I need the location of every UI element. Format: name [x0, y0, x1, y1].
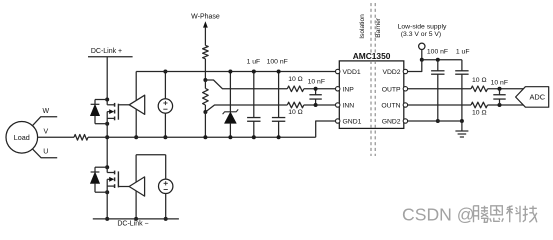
svg-text:10 Ω: 10 Ω: [472, 77, 487, 84]
wire R6 to ADC: [488, 104, 524, 106]
resistor R5 10ohm (OUTP): [471, 86, 488, 92]
wire R5 to ADC: [488, 88, 524, 90]
svg-text:1 uF: 1 uF: [247, 58, 261, 65]
svg-text:10 Ω: 10 Ω: [288, 76, 303, 83]
wire driver A1 supply top: [135, 72, 137, 101]
wire VDD1 rail: [136, 71, 339, 73]
wire tap B to INN line: [205, 105, 287, 112]
wire R1 to node A: [204, 59, 206, 80]
svg-text:Load: Load: [14, 133, 30, 142]
wire Q1 gate: [118, 104, 129, 106]
pin VDD1: [336, 69, 340, 73]
source V1 (floating gate-drive supply): [158, 99, 172, 113]
node low-side supply terminal: [419, 43, 425, 49]
svg-text:GND1: GND1: [343, 119, 362, 126]
wire GND2 to ground: [461, 121, 463, 131]
wire W-Phase arrow: [203, 21, 208, 27]
svg-text:W-Phase: W-Phase: [191, 14, 220, 21]
wire driver A2 return bottom: [135, 191, 137, 219]
svg-text:ADC: ADC: [529, 93, 545, 102]
wire phase rail (high-side ground): [107, 136, 316, 138]
pin VDD2: [403, 69, 407, 73]
wire GND2: [407, 120, 462, 122]
wire supply terminal to rail: [421, 50, 423, 60]
pin INN: [336, 103, 340, 107]
svg-text:1 uF: 1 uF: [456, 49, 470, 56]
op-amp U1 AMC1350 (isolated amplifier): [339, 61, 404, 128]
svg-text:10 Ω: 10 Ω: [472, 109, 487, 116]
diode D1 (zener clamp): [229, 72, 231, 112]
wire low-side supply rail: [422, 59, 462, 61]
wire Q1-Q2 midpoint (phase node): [106, 124, 108, 168]
wire DC-Link+ rail: [88, 56, 133, 58]
svg-text:100 nF: 100 nF: [427, 49, 448, 56]
wire Q2 source to DC-Link- rail: [106, 191, 108, 219]
svg-text:AMC1350: AMC1350: [353, 51, 391, 61]
pin OUTN: [403, 103, 407, 107]
label watermark glyph en: [491, 206, 503, 215]
source V2 (low-side gate-drive supply): [159, 179, 173, 193]
label watermark glyph ji: [523, 206, 528, 222]
capacitor C6 10nF (output filter): [499, 89, 501, 95]
wire Q2 gate: [118, 186, 129, 188]
capacitor C1 1uF (VDD1): [253, 72, 255, 118]
wire load V to shunt: [38, 136, 74, 138]
wire VDD2 to supply: [407, 60, 421, 72]
ground: [455, 130, 468, 132]
capacitor C3 10nF (input filter): [315, 89, 317, 95]
capacitor C5 1uF (VDD2): [461, 60, 463, 71]
pin GND2: [403, 119, 407, 123]
svg-text:10 nF: 10 nF: [308, 79, 325, 86]
wire phase W stub: [32, 117, 57, 126]
wire V2 bottom: [165, 194, 167, 219]
svg-text:Low-side supply: Low-side supply: [398, 23, 447, 30]
svg-text:OUTP: OUTP: [382, 86, 401, 93]
wire OUTP: [407, 88, 471, 90]
wire DC-Link- rail: [93, 218, 179, 220]
svg-text:INP: INP: [343, 86, 355, 93]
svg-text:GND2: GND2: [382, 119, 401, 126]
svg-text:V: V: [43, 129, 48, 136]
svg-text:DC-Link −: DC-Link −: [117, 221, 148, 228]
pin GND1: [336, 119, 340, 123]
wire V1 top: [164, 72, 166, 99]
pin OUTP: [403, 87, 407, 91]
resistor R2 (divider bottom): [204, 80, 206, 88]
op-amp U2 ADC block: [516, 87, 549, 108]
svg-text:Isolation: Isolation: [359, 14, 366, 39]
svg-text:DC-Link +: DC-Link +: [91, 48, 122, 55]
wire driver A1 return bottom: [135, 109, 137, 137]
resistor R4 10ohm (INN): [287, 102, 304, 108]
wire lower driver rail: [136, 154, 166, 156]
op-amp gate driver A1: [129, 95, 145, 114]
resistor R6 10ohm (OUTN): [471, 102, 488, 108]
svg-text:10 nF: 10 nF: [491, 80, 508, 87]
wire R4 to INN pin: [304, 104, 336, 106]
capacitor C4 100nF (VDD2): [437, 60, 439, 71]
resistor R3 10ohm (INP): [287, 86, 304, 92]
svg-text:OUTN: OUTN: [381, 103, 400, 110]
isolation barrier dashed lines: [370, 3, 372, 53]
transistor Q2 (low-side MOSFET with body diode): [105, 165, 109, 169]
svg-text:CSDN @: CSDN @: [402, 204, 475, 224]
wire V1 bottom: [164, 113, 166, 137]
transistor Q1 (high-side MOSFET with body diode): [105, 98, 109, 102]
node B (divider tap INN): [203, 110, 207, 114]
op-amp gate driver A2: [129, 177, 145, 196]
wire tap A to INP line: [205, 80, 287, 89]
wire R2 to node B: [204, 105, 206, 112]
capacitor C2 100nF (VDD1): [278, 72, 280, 118]
wire phase U stub: [32, 149, 57, 158]
label watermark glyph ke: [507, 206, 514, 223]
wire node B to phase rail: [204, 112, 206, 137]
svg-text:W: W: [42, 108, 49, 115]
label watermark glyph teng: [474, 206, 479, 223]
svg-text:(3.3 V or 5 V): (3.3 V or 5 V): [401, 31, 441, 38]
svg-text:VDD2: VDD2: [382, 69, 400, 76]
svg-text:VDD1: VDD1: [343, 69, 361, 76]
svg-text:100 nF: 100 nF: [267, 58, 288, 65]
svg-text:INN: INN: [343, 103, 355, 110]
wire R3 to INP pin: [304, 88, 336, 90]
pin INP: [336, 87, 340, 91]
resistor R-series (phase V): [74, 135, 88, 141]
load M1 (motor): [6, 122, 38, 154]
svg-text:Barrier: Barrier: [375, 17, 382, 38]
resistor R1 (divider top): [203, 45, 209, 58]
wire DC-Link+ to Q1 drain: [106, 57, 108, 100]
svg-text:10 Ω: 10 Ω: [288, 109, 303, 116]
wire GND1 return: [316, 121, 336, 137]
wire shunt to bridge midpoint: [88, 136, 107, 138]
wire OUTN: [407, 104, 471, 106]
svg-text:U: U: [43, 149, 48, 156]
wire V2 top: [165, 155, 167, 179]
wire driver A2 supply top: [135, 155, 137, 182]
node A (divider tap INP): [203, 78, 207, 82]
